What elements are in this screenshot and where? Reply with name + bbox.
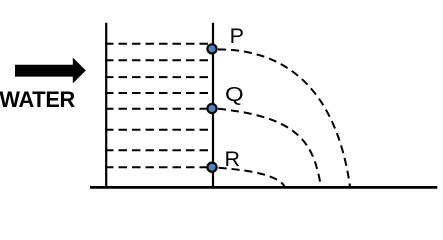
water surface dashed line 8 <box>105 166 214 168</box>
hole R marker <box>207 163 216 172</box>
svg-text:WATER: WATER <box>0 87 76 112</box>
water flow arrow <box>15 58 86 84</box>
left boundary line <box>105 23 107 188</box>
svg-text:Q: Q <box>225 83 244 106</box>
ground line <box>90 186 437 189</box>
water surface dashed line 2 <box>105 59 214 61</box>
hole Q marker <box>207 104 216 113</box>
water surface dashed line 4 <box>105 92 214 94</box>
water surface dashed line 5 <box>105 108 214 110</box>
water surface dashed line 6 <box>105 129 214 131</box>
svg-text:P: P <box>230 24 244 48</box>
water surface dashed line 1 <box>105 43 214 45</box>
wall (dam face) <box>212 23 214 188</box>
hole P marker <box>207 44 216 53</box>
water surface dashed line 3 <box>105 76 214 78</box>
streamline from R <box>219 168 285 187</box>
streamline from Q <box>218 109 321 187</box>
svg-text:R: R <box>225 147 241 171</box>
water surface dashed line 7 <box>105 149 214 151</box>
streamline from P <box>218 49 350 186</box>
